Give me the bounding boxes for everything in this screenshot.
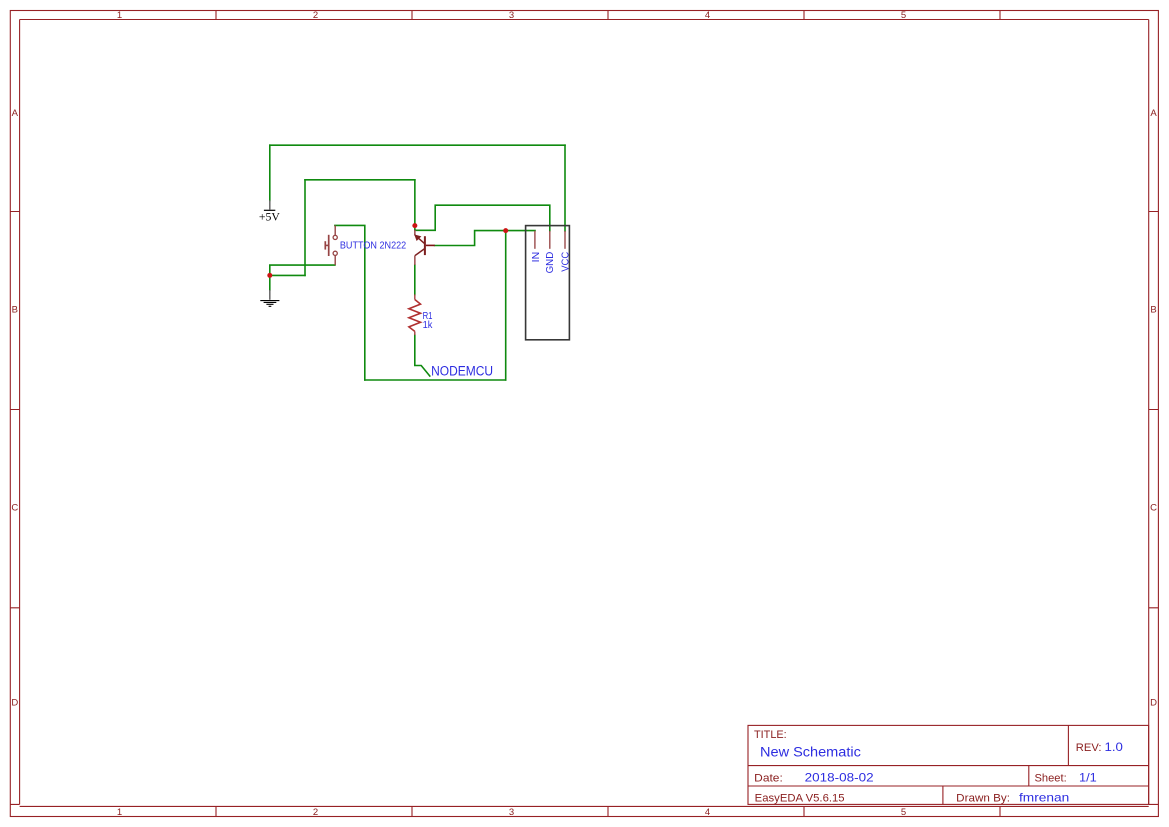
frame row ticks left (10, 212, 19, 608)
svg-text:1/1: 1/1 (1079, 770, 1097, 784)
wire dot to x305 (270, 274, 305, 276)
frame inner left line (19, 20, 21, 805)
svg-text:1: 1 (117, 10, 122, 21)
svg-text:fmrenan: fmrenan (1019, 790, 1069, 804)
frame column ticks bottom (216, 806, 1000, 816)
column numbers top (117, 10, 906, 21)
pin IN (534, 231, 536, 249)
wire button bottom to left (270, 265, 335, 275)
svg-text:New Schematic: New Schematic (760, 745, 861, 760)
junction dot A (ground node) (267, 273, 272, 278)
svg-text:A: A (1150, 108, 1157, 119)
button BUTTON (325, 225, 337, 265)
wire base to in pin (435, 231, 535, 246)
row letters left (11, 108, 18, 709)
junction dot C (IN node) (503, 228, 508, 233)
junction dot B (emitter node) (412, 223, 417, 228)
svg-text:NODEMCU: NODEMCU (431, 364, 493, 379)
svg-text:2: 2 (313, 807, 318, 818)
svg-text:Drawn By:: Drawn By: (956, 792, 1010, 804)
svg-text:IN: IN (530, 252, 542, 263)
wire bottom horizontal (365, 379, 506, 381)
svg-text:EasyEDA V5.6.15: EasyEDA V5.6.15 (755, 792, 845, 804)
transistor emitter arrow (414, 234, 421, 241)
svg-text:C: C (11, 503, 18, 514)
svg-text:REV:: REV: (1076, 742, 1102, 754)
row letters right (1150, 108, 1157, 709)
svg-text:1.0: 1.0 (1105, 740, 1124, 754)
svg-text:4: 4 (705, 10, 710, 21)
pin GND (549, 231, 551, 249)
wire dot to ground (269, 275, 271, 290)
svg-text:+5V: +5V (259, 211, 280, 223)
svg-text:4: 4 (705, 807, 710, 818)
wire resistor to nodemcu flag (415, 335, 430, 376)
wire +5V drop (269, 145, 271, 200)
frame row ticks right (1149, 212, 1159, 608)
wire x415 vertical to emitter dot (414, 180, 416, 230)
svg-text:5: 5 (901, 10, 906, 21)
svg-text:Sheet:: Sheet: (1035, 772, 1067, 784)
frame inner right line (1148, 20, 1150, 805)
svg-text:3: 3 (509, 807, 514, 818)
+5V flag (259, 200, 280, 223)
svg-text:D: D (1150, 698, 1157, 709)
svg-text:2: 2 (313, 10, 318, 21)
svg-text:3: 3 (509, 10, 514, 21)
wire collector to resistor (414, 265, 416, 295)
pin VCC (564, 231, 566, 249)
frame inner top line (20, 19, 1149, 21)
svg-text:VCC: VCC (560, 251, 572, 271)
svg-text:1: 1 (117, 807, 122, 818)
wire emitter jog to gnd pin (415, 205, 550, 231)
svg-text:TITLE:: TITLE: (754, 729, 787, 741)
resistor R1 (409, 294, 421, 335)
transistor 2N222 (415, 230, 435, 265)
svg-text:B: B (1150, 305, 1156, 316)
wire top horizontal (270, 144, 565, 146)
svg-text:GND: GND (544, 251, 556, 273)
svg-text:A: A (12, 108, 19, 119)
svg-text:C: C (1150, 503, 1157, 514)
title block (748, 725, 1149, 804)
svg-text:Date:: Date: (754, 772, 783, 784)
svg-text:B: B (12, 305, 18, 316)
svg-text:D: D (11, 698, 18, 709)
svg-text:5: 5 (901, 807, 906, 818)
frame column ticks top (216, 11, 1000, 20)
connector NODEMCU body (526, 226, 570, 340)
wire x505 vertical (505, 231, 507, 380)
frame inner bottom line (20, 805, 1149, 807)
column numbers bottom (117, 807, 906, 818)
wire VCC drop (564, 145, 566, 231)
svg-text:1k: 1k (423, 319, 433, 331)
ground (260, 290, 279, 306)
wire x305 vertical (304, 180, 306, 276)
svg-text:2018-08-02: 2018-08-02 (805, 770, 874, 784)
frame strip closures bottom (10, 803, 1158, 805)
wire button top (335, 225, 365, 380)
svg-text:BUTTON 2N222: BUTTON 2N222 (340, 239, 406, 251)
wire y180 horizontal (305, 179, 415, 181)
